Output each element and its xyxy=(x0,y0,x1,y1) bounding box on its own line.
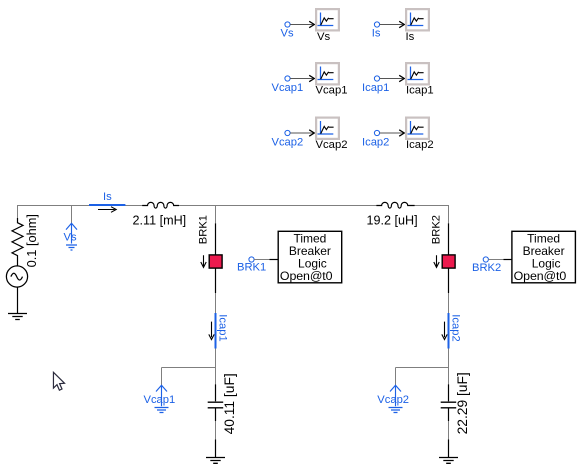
breaker BRK1 bottom stem xyxy=(215,268,217,293)
output channel Vs: node connector xyxy=(285,22,290,27)
svg-text:Vcap2: Vcap2 xyxy=(272,137,304,149)
svg-text:2.11 [mH]: 2.11 [mH] xyxy=(133,213,187,227)
output channel Vcap1: arrowhead xyxy=(309,75,314,81)
svg-text:Open@t0: Open@t0 xyxy=(280,269,333,283)
wire: Icap1 to capacitor C1 xyxy=(215,349,217,385)
svg-text:BRK2: BRK2 xyxy=(430,215,442,244)
output channel Is: link wire xyxy=(380,24,404,26)
ammeter Icap1: measured wire segment xyxy=(215,313,217,349)
svg-text:22.29 [uF]: 22.29 [uF] xyxy=(455,372,470,434)
signal node BRK2: connector xyxy=(483,257,488,262)
breaker BRK2 state arrow xyxy=(434,255,439,267)
output channel Vs: scope box xyxy=(316,9,339,30)
ground G3 xyxy=(439,458,458,464)
resistor R1 0.1 ohm xyxy=(12,218,23,266)
timed breaker logic U1 box xyxy=(278,231,342,282)
signal node BRK1: connector xyxy=(249,257,254,262)
ground G1 xyxy=(8,314,27,320)
output channel Is: arrowhead xyxy=(399,21,404,27)
output channel Vs: arrowhead xyxy=(309,21,314,27)
timed breaker logic U2 box xyxy=(512,231,576,282)
source V1 sine symbol xyxy=(11,273,23,280)
output channel Vcap2: node connector xyxy=(285,130,290,135)
output channel Icap1: link wire xyxy=(380,78,404,80)
output channel Vs: link wire xyxy=(290,24,314,26)
breaker BRK2 contact square xyxy=(442,255,455,268)
wire: top bus xyxy=(18,205,449,207)
svg-text:BRK1: BRK1 xyxy=(237,262,266,274)
output channel Vcap2: scope icon curve xyxy=(321,126,334,133)
svg-text:19.2 [uH]: 19.2 [uH] xyxy=(367,213,418,227)
svg-text:40.11 [uF]: 40.11 [uF] xyxy=(222,373,237,434)
svg-text:Icap1: Icap1 xyxy=(406,84,434,96)
svg-text:Vs: Vs xyxy=(281,28,294,40)
signal node BRK1: link stub xyxy=(270,259,279,261)
signal node BRK1: link wire xyxy=(254,259,269,261)
output channel Icap1: scope box xyxy=(406,63,429,84)
output channel Icap2: arrowhead xyxy=(399,130,404,136)
svg-text:Vcap2: Vcap2 xyxy=(316,139,348,151)
inductor L1 2.11 mH xyxy=(142,202,179,208)
output channel Vcap2: scope icon axes xyxy=(318,121,334,135)
svg-text:Vs: Vs xyxy=(317,31,331,43)
ammeter Icap1: direction arrow xyxy=(209,322,214,340)
output channel Icap2: scope icon axes xyxy=(408,121,424,135)
svg-text:BRK1: BRK1 xyxy=(197,215,209,244)
ammeter Icap2: direction arrow xyxy=(442,322,447,340)
capacitor C2 bottom stem xyxy=(448,409,450,422)
output channel Is: scope icon axes xyxy=(408,13,424,27)
output channel Vcap1: node connector xyxy=(285,76,290,81)
wire: breaker BRK1 to Icap1 segment xyxy=(215,293,217,313)
output channel Icap1: node connector xyxy=(374,76,379,81)
svg-text:Icap2: Icap2 xyxy=(406,139,434,151)
output channel Icap2: scope box xyxy=(406,118,429,139)
ground G3 stem xyxy=(448,440,450,458)
output channel Is: node connector xyxy=(374,22,379,27)
svg-text:BRK2: BRK2 xyxy=(472,262,501,274)
svg-text:Vcap1: Vcap1 xyxy=(144,394,176,406)
svg-text:Icap1: Icap1 xyxy=(362,82,389,94)
voltmeter Vs probe ground bars xyxy=(66,245,77,250)
ground G2 xyxy=(206,458,225,464)
wire: node to Vcap1 probe xyxy=(162,368,216,386)
wire: capacitor C1 to ground xyxy=(215,421,217,440)
output channel Icap1: scope icon axes xyxy=(408,67,424,81)
wire: breaker BRK2 to Icap2 segment xyxy=(448,293,450,313)
output channel Icap2: scope icon curve xyxy=(411,126,424,133)
capacitor C1 top stem xyxy=(215,384,217,401)
voltmeter Vcap1 probe ground bars xyxy=(155,408,169,413)
capacitor C2 top stem xyxy=(448,384,450,401)
svg-text:Open@t0: Open@t0 xyxy=(514,269,567,283)
breaker BRK1 top stem xyxy=(215,223,217,255)
breaker BRK1 contact square xyxy=(209,255,222,268)
ground G2 stem xyxy=(215,440,217,458)
voltmeter Vcap2 probe ground bars xyxy=(389,408,403,413)
signal node BRK2: link wire xyxy=(488,259,503,261)
capacitor C1 bottom stem xyxy=(215,409,217,422)
svg-text:Icap2: Icap2 xyxy=(450,314,462,341)
svg-text:Is: Is xyxy=(406,31,415,43)
mouse cursor xyxy=(53,372,64,390)
output channel Vcap1: scope box xyxy=(316,63,339,84)
svg-text:Icap1: Icap1 xyxy=(217,314,229,341)
output channel Is: scope box xyxy=(406,9,429,30)
voltmeter Vcap2 probe arrow xyxy=(390,385,401,406)
svg-text:Is: Is xyxy=(372,28,381,40)
signal node BRK2: link stub xyxy=(504,259,512,261)
output channel Icap1: arrowhead xyxy=(399,75,404,81)
source V1 circle xyxy=(6,266,27,287)
voltmeter Vcap1 probe arrow xyxy=(156,385,167,406)
wire: source to ground xyxy=(17,287,19,313)
voltmeter Vs probe arrow xyxy=(66,223,77,243)
output channel Icap2: node connector xyxy=(374,130,379,135)
wire: Vs probe stub xyxy=(71,206,73,224)
svg-text:Icap2: Icap2 xyxy=(362,137,389,149)
wire: bus to breaker BRK2 xyxy=(448,205,450,223)
svg-text:Is: Is xyxy=(103,191,112,203)
output channel Vcap1: scope icon axes xyxy=(318,67,334,81)
wire: Icap2 to capacitor C2 xyxy=(448,349,450,385)
output channel Vcap2: arrowhead xyxy=(309,130,314,136)
svg-text:Vs: Vs xyxy=(64,232,77,244)
ammeter Is: measured wire segment xyxy=(89,204,125,206)
output channel Vs: scope icon axes xyxy=(318,13,334,27)
inductor L2 19.2 uH xyxy=(376,202,414,208)
wire: bus to breaker BRK1 xyxy=(215,205,217,223)
svg-text:Vcap2: Vcap2 xyxy=(377,394,409,406)
wire: capacitor C2 to ground xyxy=(448,421,450,440)
capacitor C2 plates xyxy=(441,402,457,408)
output channel Vcap1: link wire xyxy=(290,78,314,80)
ammeter Icap2: measured wire segment xyxy=(448,313,450,349)
breaker BRK2 top stem xyxy=(448,223,450,255)
output channel Icap1: scope icon curve xyxy=(411,72,424,79)
svg-text:0.1 [ohm]: 0.1 [ohm] xyxy=(24,214,39,267)
wire: left rail top xyxy=(17,205,19,219)
wire: node to Vcap2 probe xyxy=(396,368,449,386)
svg-text:Vcap1: Vcap1 xyxy=(316,84,348,96)
output channel Vs: scope icon curve xyxy=(321,18,334,25)
output channel Vcap1: scope icon curve xyxy=(321,72,334,79)
ammeter Is: direction arrow xyxy=(98,207,116,213)
breaker BRK2 bottom stem xyxy=(448,268,450,293)
output channel Icap2: link wire xyxy=(380,132,404,134)
output channel Vcap2: scope box xyxy=(316,118,339,139)
output channel Is: scope icon curve xyxy=(411,18,424,25)
capacitor C1 plates xyxy=(208,402,224,408)
svg-text:Vcap1: Vcap1 xyxy=(272,82,304,94)
breaker BRK1 state arrow xyxy=(201,255,206,267)
output channel Vcap2: link wire xyxy=(290,132,314,134)
